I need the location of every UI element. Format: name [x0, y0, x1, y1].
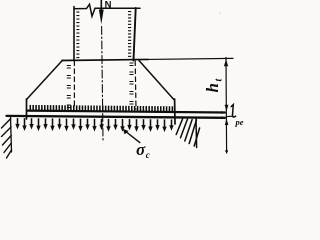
hidden column edge (dashed) right	[134, 61, 137, 109]
footing left slope	[27, 60, 63, 99]
break line with zigzag at top of column	[74, 4, 140, 16]
dimension line h_t	[225, 58, 228, 154]
svg-text:N: N	[105, 0, 112, 11]
column left tick marks	[76, 12, 79, 59]
label h_t (rotated)	[203, 78, 225, 93]
svg-text:σ: σ	[136, 140, 146, 159]
leader arrow for sigma label	[126, 131, 140, 142]
column right edge	[134, 8, 136, 61]
footing top extension line	[148, 58, 233, 59]
footing right slope	[139, 61, 174, 100]
ground line	[7, 116, 225, 118]
leader tick to L label	[227, 115, 234, 117]
end dot of dimension line	[225, 150, 228, 153]
footing bottom line	[27, 111, 225, 113]
interior tick groups left	[67, 65, 71, 108]
footing right vertical edge	[174, 99, 176, 124]
hidden column edge (dashed) left	[73, 61, 75, 109]
right soil hatch zone	[176, 119, 199, 146]
load arrow N shaft	[100, 0, 102, 12]
footing top line	[62, 59, 148, 60]
svg-text:h: h	[203, 83, 222, 92]
label L_pe	[231, 105, 235, 117]
svg-text:pe: pe	[235, 117, 244, 127]
small arrowhead below gap pointing up	[225, 119, 229, 125]
top arrowhead of h_t	[224, 59, 228, 66]
tick band above footing bottom	[30, 105, 174, 111]
column left edge	[73, 7, 75, 61]
arrowhead right end of footing bottom line	[222, 111, 226, 114]
right soil vertical line	[195, 119, 198, 148]
centerline (dash-dot)	[102, 27, 103, 141]
left pit wall	[11, 117, 12, 153]
arrowhead right end of ground line	[222, 116, 226, 119]
column right tick marks	[128, 11, 131, 57]
bottom arrowhead of h_t	[225, 105, 229, 112]
soil pressure arrows	[15, 118, 173, 132]
footing left vertical edge	[26, 99, 28, 119]
svg-text:c: c	[146, 150, 150, 160]
interior tick groups right	[130, 63, 134, 105]
left pit wall hatching	[2, 119, 12, 159]
load arrow N head	[99, 10, 104, 25]
